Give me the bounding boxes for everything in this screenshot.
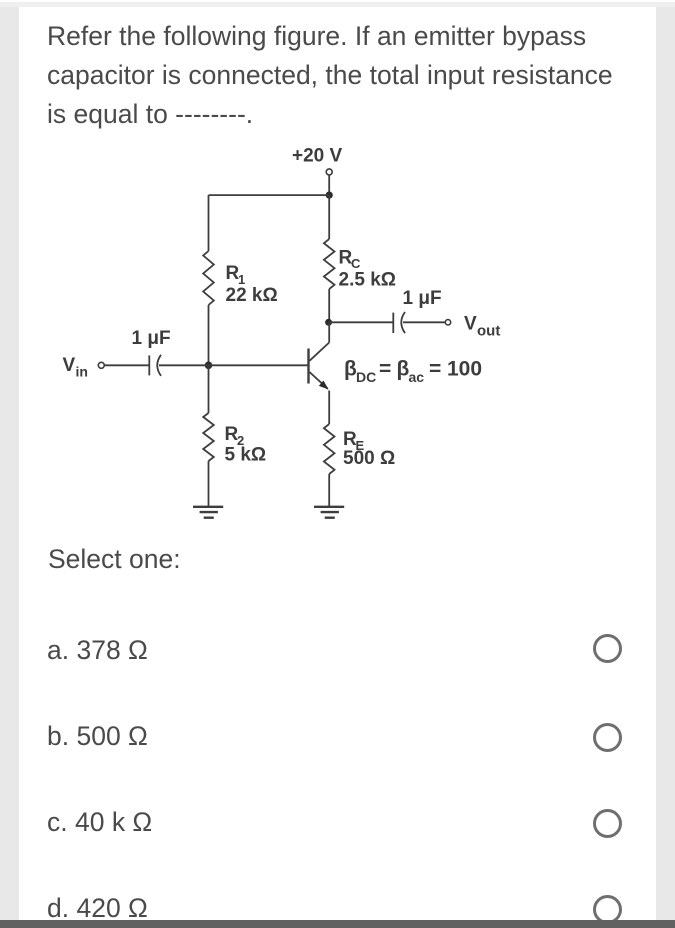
svg-text:5 kΩ: 5 kΩ — [225, 445, 267, 466]
label R1 — [226, 263, 246, 287]
wire emitter down — [328, 391, 330, 425]
node C output junction — [325, 319, 332, 326]
svg-text:=: = — [429, 358, 441, 381]
wire C1 to base — [159, 364, 309, 366]
label Vout — [464, 314, 500, 340]
transistor Q1 base bar — [307, 349, 309, 384]
wire left drop to R1 — [208, 195, 210, 251]
resistor RE — [324, 424, 335, 474]
option a — [47, 635, 148, 666]
capacitor C1 curved plate — [157, 355, 161, 376]
option c — [47, 807, 152, 838]
wire R1 to input node — [208, 305, 210, 365]
label R2 — [225, 424, 245, 448]
+20 V supply label — [292, 146, 343, 167]
label beta — [344, 358, 482, 386]
value 22 kΩ — [226, 285, 278, 306]
ground G1 — [193, 507, 223, 518]
wire RC to output node — [328, 289, 330, 322]
svg-text:ac: ac — [409, 369, 425, 385]
wire RE to ground — [328, 474, 330, 507]
resistor RC — [324, 239, 335, 289]
resistor R1 — [203, 251, 214, 305]
capacitor C2 curved plate — [401, 312, 405, 333]
svg-text:22 kΩ: 22 kΩ — [226, 285, 278, 306]
option d — [47, 893, 148, 924]
label 1 µF output — [403, 288, 442, 309]
svg-text:V: V — [63, 355, 76, 376]
value 2.5 kΩ — [339, 270, 397, 291]
svg-text:in: in — [76, 364, 88, 380]
value 5 kΩ — [225, 445, 267, 466]
label Vin — [63, 355, 88, 380]
capacitor C1 plate — [148, 355, 150, 375]
svg-text:1 μF: 1 μF — [403, 288, 442, 309]
input terminal circle — [98, 362, 104, 368]
node B input junction — [205, 362, 213, 370]
option b — [47, 721, 148, 752]
wire output node to collector — [328, 322, 330, 342]
svg-text:out: out — [477, 323, 500, 340]
resistor R2 — [203, 413, 214, 461]
svg-text:V: V — [464, 314, 477, 335]
supply terminal circle — [326, 169, 332, 175]
wire top rail — [209, 194, 330, 196]
svg-text:100: 100 — [447, 358, 482, 381]
label 1 µF input — [132, 328, 171, 349]
svg-text:1 μF: 1 μF — [132, 328, 171, 349]
capacitor C2 plate — [392, 313, 394, 333]
svg-text:500 Ω: 500 Ω — [343, 448, 395, 469]
wire C2 to output terminal — [403, 321, 445, 323]
wire R2 to ground — [208, 461, 210, 507]
output terminal circle — [445, 320, 450, 325]
wire input terminal to C1 — [105, 364, 150, 366]
ground G2 — [314, 507, 344, 518]
label RE — [343, 429, 365, 453]
svg-text:+20 V: +20 V — [292, 146, 343, 167]
node junction top rail — [326, 192, 333, 199]
wire input node to R2 — [208, 365, 210, 413]
wire output node to C2 — [329, 321, 393, 323]
wire RC branch from rail — [328, 195, 330, 239]
label RC — [339, 248, 362, 272]
svg-text:=: = — [379, 358, 391, 381]
svg-text:2.5 kΩ: 2.5 kΩ — [339, 270, 397, 291]
value 500 Ω — [343, 448, 395, 469]
transistor Q1 collector lead — [310, 343, 330, 361]
wire supply drop — [328, 175, 330, 195]
transistor Q1 emitter lead — [310, 372, 328, 389]
transistor Q1 emitter arrow — [319, 381, 329, 390]
svg-text:DC: DC — [356, 369, 376, 385]
